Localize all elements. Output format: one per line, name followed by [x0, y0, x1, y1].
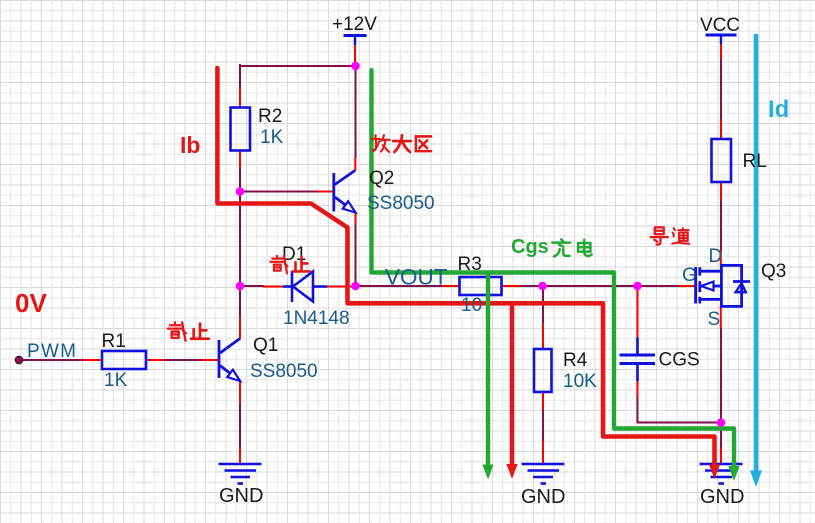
wire Q3 source to node — [720, 327, 722, 423]
svg-text:GND: GND — [521, 486, 565, 508]
svg-text:Q1: Q1 — [253, 335, 278, 356]
wire base node down to D1 node — [239, 192, 241, 286]
pin GND2 — [542, 441, 544, 464]
svg-text:R1: R1 — [102, 331, 126, 352]
pin Q1 emitter — [239, 381, 241, 404]
wire node to R4 top — [542, 286, 544, 324]
node junction Q3 source — [717, 418, 726, 427]
wire base node to Q2 base — [240, 191, 318, 193]
svg-text:1N4148: 1N4148 — [283, 308, 350, 329]
ground GND2 — [522, 464, 565, 484]
svg-text:RL: RL — [743, 151, 767, 172]
wire Q2 emitter down to VOUT node — [355, 222, 357, 286]
annotation red branch discharge arrow to GND2 area — [510, 303, 515, 465]
pin Q1 base — [202, 359, 219, 361]
annotation text fangdaqu (active region) near Q2 — [372, 135, 431, 152]
wire VOUT node to R3 left — [356, 285, 444, 287]
MOSFET Q3 substrate arrow — [701, 282, 714, 291]
annotation green Cgs charge path — [372, 70, 735, 466]
node junction VOUT — [351, 282, 360, 291]
pin Q1 collector — [239, 318, 241, 339]
pin R4 bottom — [542, 392, 544, 410]
svg-text:Q3: Q3 — [761, 261, 786, 282]
svg-text:SS8050: SS8050 — [250, 361, 318, 382]
wire top bus +12V node to R2 — [240, 65, 356, 67]
svg-text:Id: Id — [768, 96, 789, 123]
wire VCC to RL top — [720, 58, 722, 121]
pin R3 left — [442, 285, 460, 287]
svg-text:Q2: Q2 — [369, 168, 394, 189]
wire R3 right to Q3 gate bus — [519, 285, 680, 287]
power symbol VCC — [706, 35, 737, 44]
wire R2 top corner — [239, 64, 241, 92]
svg-text:VCC: VCC — [700, 15, 740, 36]
wire PWM to R1 — [22, 359, 85, 361]
pin RL top — [720, 120, 722, 140]
annotation green arrowhead at GND3 — [728, 466, 739, 481]
svg-text:G: G — [682, 265, 697, 286]
node junction Q1 base / R2 — [236, 187, 245, 196]
pin R3 right — [501, 285, 520, 287]
resistor R3 — [460, 277, 502, 295]
svg-text:PWM: PWM — [27, 341, 76, 362]
annotation text jiezhi (cutoff) near Q1 — [168, 322, 209, 340]
annotation red arrowhead at GND3 — [709, 465, 720, 479]
pin R2 bottom — [239, 150, 241, 168]
wire D1 node down to Q1 collector — [239, 286, 241, 318]
pin Q2 collector — [354, 157, 356, 171]
port PWM terminal — [15, 356, 22, 363]
MOSFET Q3 — [696, 265, 751, 306]
wire R4 bottom to GND2 — [542, 409, 544, 442]
resistor R4 — [534, 349, 552, 392]
pin Q2 base — [317, 191, 334, 193]
svg-text:CGS: CGS — [659, 350, 700, 371]
svg-text:1K: 1K — [260, 127, 284, 148]
svg-text:10K: 10K — [563, 371, 597, 392]
resistor RL — [712, 139, 732, 182]
pin VCC — [720, 42, 722, 59]
transistor Q2 SS8050 — [334, 171, 356, 213]
pin RL bottom — [720, 182, 722, 200]
svg-text:VOUT: VOUT — [385, 265, 448, 290]
svg-text:GND: GND — [700, 486, 744, 508]
svg-text:10: 10 — [461, 295, 482, 316]
annotation text daotong (conducting) near Q3 — [651, 227, 690, 244]
resistor R2 — [231, 108, 251, 151]
svg-text:D: D — [709, 246, 723, 267]
svg-text:+12V: +12V — [332, 14, 377, 35]
annotation text jiezhi (cutoff) near D1 — [270, 256, 310, 274]
wire node to Q2 collector — [355, 66, 357, 158]
pin GND3 — [720, 448, 722, 464]
wire R2 bottom to base node — [239, 167, 241, 192]
pin GND1 — [239, 448, 241, 464]
pin Q3 drain — [720, 250, 722, 266]
resistor R1 — [102, 351, 146, 369]
svg-text:R2: R2 — [258, 106, 282, 127]
pin D1 anode — [263, 286, 284, 288]
annotation green branch arrow left — [486, 273, 490, 466]
annotation cyan Id drain current path — [754, 34, 759, 471]
annotation red Ib base-drive path — [217, 68, 714, 466]
node junction +12V — [351, 62, 360, 71]
pin CGS bottom — [637, 381, 639, 399]
node junction R4 — [538, 282, 547, 291]
pin Q3 gate — [679, 285, 695, 287]
svg-text:SS8050: SS8050 — [367, 193, 435, 214]
transistor Q1 SS8050 — [219, 339, 240, 382]
svg-text:0V: 0V — [15, 288, 47, 318]
svg-text:1K: 1K — [104, 370, 128, 391]
svg-text:R4: R4 — [563, 350, 588, 371]
capacitor CGS — [620, 338, 656, 382]
wire node to GND3 — [720, 423, 722, 450]
wire R1 to Q1 base — [163, 359, 203, 361]
pin R4 top — [542, 323, 544, 350]
svg-text:GND: GND — [219, 485, 263, 507]
svg-text:Ib: Ib — [180, 132, 200, 158]
svg-text:S: S — [708, 309, 721, 330]
wire D1 node to D1 anode — [240, 285, 264, 287]
svg-text:Cgs: Cgs — [511, 236, 549, 258]
wire Q1 emitter to GND1 — [239, 402, 241, 449]
ground GND1 — [219, 464, 262, 484]
wire CGS bottom to source node — [638, 397, 722, 423]
power symbol +12V — [344, 36, 367, 46]
wire RL bottom to Q3 drain — [720, 199, 722, 251]
pin CGS top — [637, 290, 639, 338]
pin R1 left — [84, 359, 102, 361]
ground GND3 — [700, 464, 743, 484]
node junction D1 anode — [236, 282, 245, 291]
pin D1 cathode — [327, 286, 352, 288]
pin R2 top — [239, 88, 241, 108]
node junction CGS — [633, 282, 642, 291]
pin +12V — [354, 44, 356, 62]
svg-text:R3: R3 — [458, 254, 482, 275]
pin Q2 emitter — [355, 213, 357, 224]
pin R1 right — [146, 359, 164, 361]
diode D1 1N4148 — [283, 271, 327, 302]
pin Q3 source — [720, 306, 722, 329]
